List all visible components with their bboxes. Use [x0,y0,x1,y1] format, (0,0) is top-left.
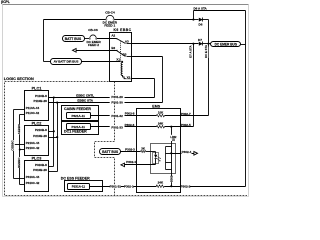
svg-text:PLC3: PLC3 [32,156,42,160]
svg-text:DC E STA: DC E STA [204,45,208,58]
svg-text:P302-5: P302-5 [181,123,191,127]
svg-text:X2: X2 [127,75,131,79]
svg-text:B3: B3 [123,53,127,57]
svg-text:P302-1: P302-1 [124,185,134,189]
svg-text:D302: D302 [170,175,174,182]
svg-text:P302-3: P302-3 [125,147,135,151]
svg-text:P110C-42: P110C-42 [26,111,40,115]
svg-text:EBBC CNTL: EBBC CNTL [76,93,94,97]
svg-text:D6: D6 [199,23,203,27]
svg-text:BATT BUS: BATT BUS [102,150,118,154]
svg-text:P110A-44: P110A-44 [26,106,40,110]
svg-text:LOGIC SECTION: LOGIC SECTION [4,77,34,81]
svg-text:D7: D7 [198,38,202,42]
svg-text:DC ESS FEEDER: DC ESS FEEDER [61,176,90,180]
svg-text:P210A-44: P210A-44 [26,141,40,145]
svg-text:X1: X1 [116,58,120,62]
svg-text:FEED 1: FEED 1 [104,24,115,28]
svg-text:P210B-28: P210B-28 [33,134,47,138]
svg-text:PLC1: PLC1 [32,87,42,91]
svg-text:B2: B2 [111,46,115,50]
svg-text:P301-31: P301-31 [110,185,122,189]
svg-text:P621A-11: P621A-11 [72,114,86,118]
svg-text:P302-2: P302-2 [181,185,191,189]
svg-text:P302-6: P302-6 [125,123,135,127]
svg-text:D6 A STA: D6 A STA [194,6,208,10]
svg-text:P310B-28: P310B-28 [33,168,47,172]
svg-text:P210C-42: P210C-42 [26,146,40,150]
svg-text:P210B-8: P210B-8 [35,128,47,132]
svg-text:BEBBC: BEBBC [17,157,21,168]
svg-text:A3: A3 [125,40,129,44]
svg-text:D7 A STA: D7 A STA [189,45,193,57]
svg-text:EBBC STA: EBBC STA [77,99,93,103]
svg-text:P231A-11: P231A-11 [72,184,86,188]
svg-text:P301-33: P301-33 [111,125,123,129]
svg-text:(1): (1) [172,139,175,142]
svg-text:DC EMER BUS: DC EMER BUS [215,42,237,46]
svg-text:P310B-8: P310B-8 [35,163,47,167]
svg-text:P110B-8: P110B-8 [35,94,47,98]
svg-text:P301-30: P301-30 [111,100,123,104]
svg-text:P121A-11: P121A-11 [72,125,86,129]
svg-text:P310A-44: P310A-44 [26,175,40,179]
svg-text:P110B-28: P110B-28 [33,99,47,103]
svg-text:CB-C4: CB-C4 [105,10,115,14]
svg-text:A2: A2 [111,33,115,37]
svg-text:K6 EBBC: K6 EBBC [114,28,132,32]
svg-text:P301-29: P301-29 [111,95,123,99]
svg-text:CEBBC: CEBBC [11,139,15,150]
svg-text:AV BATT DIR BUS: AV BATT DIR BUS [54,60,79,64]
svg-text:P302-8: P302-8 [125,112,135,116]
svg-text:FEED 2: FEED 2 [88,43,99,47]
svg-text:CB-C6: CB-C6 [88,28,98,32]
svg-text:BATT BUS: BATT BUS [65,37,82,41]
svg-text:(ICPL: (ICPL [1,0,10,4]
svg-text:P302-4: P302-4 [126,160,136,164]
svg-text:P302-7: P302-7 [181,112,191,116]
svg-text:P310C-42: P310C-42 [26,181,40,185]
svg-text:CABIN FEEDER: CABIN FEEDER [64,107,91,111]
svg-text:24K: 24K [158,181,164,185]
svg-text:P302-4: P302-4 [182,150,192,154]
svg-text:AEBBC: AEBBC [17,123,21,134]
svg-text:P301-32: P301-32 [111,114,123,118]
svg-text:EMS: EMS [152,105,160,109]
svg-text:10K: 10K [158,110,164,114]
svg-text:PLC2: PLC2 [32,121,42,125]
svg-text:24K: 24K [158,122,164,126]
svg-text:DC1 FEEDER: DC1 FEEDER [64,130,87,134]
